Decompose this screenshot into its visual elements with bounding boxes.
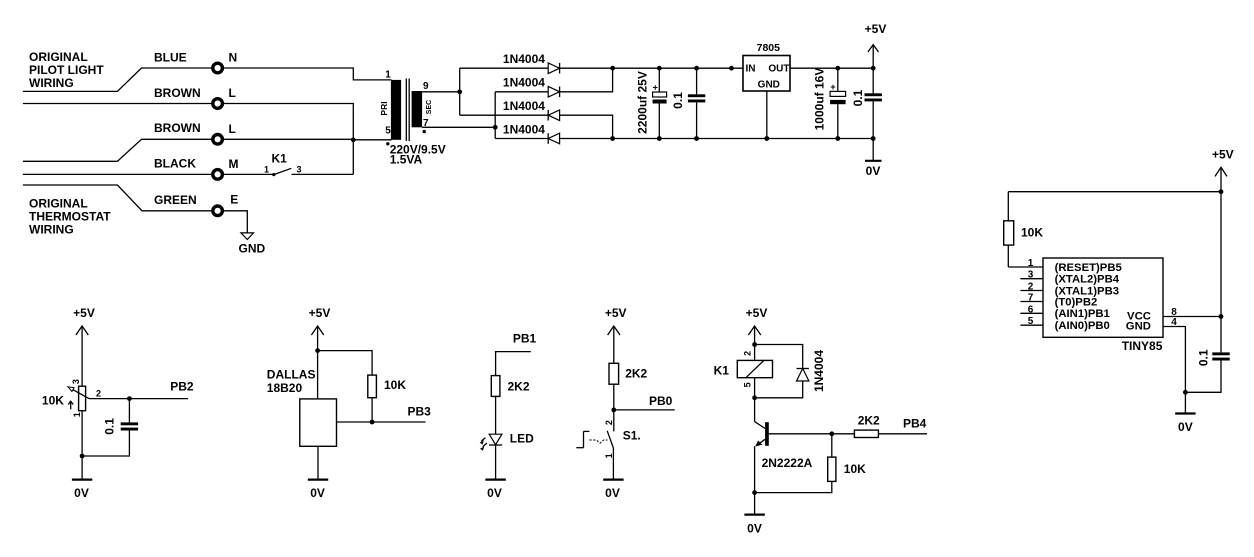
- wire wiper to PB2: [89, 398, 188, 400]
- svg-text:2: 2: [743, 351, 753, 356]
- svg-text:1.5VA: 1.5VA: [390, 153, 423, 167]
- ground 0V pot: [72, 480, 92, 500]
- svg-text:1: 1: [1028, 258, 1034, 269]
- node pin7: [493, 125, 498, 130]
- capacitor C6 0.1: [82, 399, 138, 456]
- svg-text:3: 3: [1028, 270, 1034, 281]
- voltage regulator 7805: [743, 42, 790, 91]
- svg-text:6: 6: [1028, 304, 1034, 315]
- wire pin7 vertical: [494, 92, 496, 139]
- wire sensor gnd: [317, 446, 319, 479]
- node rail joins: [610, 66, 615, 71]
- svg-text:(AIN1)PB1: (AIN1)PB1: [1055, 308, 1110, 320]
- wire LED to ground: [495, 445, 497, 480]
- svg-text:BLACK: BLACK: [154, 157, 196, 171]
- svg-text:1: 1: [72, 412, 82, 417]
- svg-text:THERMOSTAT: THERMOSTAT: [29, 210, 111, 224]
- LED D5: [480, 432, 534, 451]
- svg-text:WIRING: WIRING: [29, 76, 74, 90]
- resistor R7 10K pulldown: [755, 434, 867, 493]
- relay coil K1: [714, 351, 773, 388]
- wire secondary pin 9: [422, 91, 460, 93]
- svg-text:0.1: 0.1: [102, 418, 116, 435]
- svg-text:1N4004: 1N4004: [812, 350, 826, 392]
- svg-text:0V: 0V: [605, 486, 620, 500]
- svg-text:10K: 10K: [1021, 226, 1043, 240]
- svg-text:IN: IN: [746, 64, 756, 75]
- svg-text:WIRING: WIRING: [29, 223, 74, 237]
- svg-text:1: 1: [604, 453, 614, 458]
- svg-text:+: +: [653, 83, 658, 93]
- pin 7 stub: [1020, 301, 1043, 303]
- svg-text:E: E: [230, 193, 238, 207]
- node before regulator: [729, 66, 734, 71]
- svg-text:0V: 0V: [866, 164, 881, 178]
- svg-text:3: 3: [71, 379, 81, 384]
- svg-text:1N4004: 1N4004: [503, 99, 545, 113]
- ground 0V s1: [603, 480, 623, 500]
- IC U1 TINY85: [1043, 258, 1163, 353]
- svg-text:18B20: 18B20: [267, 381, 303, 395]
- svg-text:+5V: +5V: [865, 22, 887, 36]
- terminal E: [213, 206, 223, 216]
- svg-text:10K: 10K: [42, 394, 64, 408]
- svg-text:GND: GND: [239, 242, 266, 256]
- svg-text:0V: 0V: [310, 486, 325, 500]
- pin 2 stub: [1020, 290, 1043, 292]
- svg-text:SEC: SEC: [426, 100, 433, 114]
- terminal L1: [213, 99, 223, 109]
- svg-text:(RESET)PB5: (RESET)PB5: [1055, 262, 1122, 274]
- wire PB1: [496, 352, 531, 376]
- svg-text:BROWN: BROWN: [154, 121, 201, 135]
- label ORIGINAL PILOT LIGHT WIRING: [29, 50, 104, 90]
- pin 8 VCC stub: [1163, 316, 1221, 318]
- svg-text:+5V: +5V: [1212, 148, 1234, 162]
- svg-text:5: 5: [1028, 316, 1034, 327]
- diode D6 1N4004 flyback: [755, 350, 826, 398]
- capacitor C5 0.1 decoupling: [1185, 317, 1229, 393]
- svg-text:PB2: PB2: [170, 380, 194, 394]
- wire to pullup: [318, 351, 373, 376]
- svg-text:3: 3: [297, 164, 302, 174]
- ground 0V dallas: [308, 480, 328, 500]
- terminal L2: [213, 135, 223, 145]
- svg-text:BROWN: BROWN: [154, 86, 201, 100]
- wire +5V to flyback diode: [755, 345, 803, 369]
- supply +5V arrow main: [865, 22, 887, 68]
- supply +5V arrow relay: [746, 306, 768, 360]
- wire relay coil bottom: [754, 378, 756, 422]
- svg-text:PB1: PB1: [513, 332, 537, 346]
- resistor R4 2K2: [491, 376, 530, 435]
- svg-text:1N4004: 1N4004: [503, 122, 545, 136]
- wire BLACK row (M) to K1 contact: [23, 173, 273, 175]
- wire diode row 2: [495, 68, 612, 92]
- node pin9: [457, 89, 462, 94]
- svg-text:GND: GND: [1126, 321, 1151, 333]
- terminal N: [213, 63, 223, 73]
- svg-text:(XTAL2)PB4: (XTAL2)PB4: [1055, 274, 1120, 286]
- svg-text:S1.: S1.: [623, 429, 641, 443]
- supply +5V arrow dallas: [309, 306, 331, 399]
- svg-text:10K: 10K: [384, 378, 406, 392]
- transformer core: [405, 79, 407, 142]
- svg-text:BLUE: BLUE: [154, 51, 187, 65]
- svg-text:+5V: +5V: [746, 306, 768, 320]
- svg-text:9: 9: [423, 81, 429, 92]
- svg-text:TINY85: TINY85: [1122, 339, 1163, 353]
- svg-text:+: +: [830, 82, 835, 92]
- svg-text:ORIGINAL: ORIGINAL: [29, 197, 88, 211]
- wire reset pin: [1008, 266, 1043, 268]
- svg-text:PB3: PB3: [408, 404, 432, 418]
- diode D4 1N4004: [503, 122, 560, 144]
- wire diode row 4 / 0V rail: [495, 138, 873, 140]
- svg-text:+5V: +5V: [605, 306, 627, 320]
- capacitor C3 1000uf 16V: [812, 66, 845, 141]
- wire secondary pin 7: [422, 126, 495, 128]
- wire BROWN row 2 (L) to transformer pin 5: [23, 139, 392, 161]
- svg-text:0V: 0V: [747, 522, 762, 536]
- switch S1: [576, 420, 640, 458]
- svg-text:1N4004: 1N4004: [503, 76, 545, 90]
- diode D1 1N4004: [503, 52, 560, 74]
- resistor R1 10K pullup: [1004, 192, 1044, 267]
- svg-text:L: L: [229, 122, 236, 136]
- supply +5V arrow s1: [605, 306, 627, 363]
- svg-text:OUT: OUT: [768, 64, 789, 75]
- transformer secondary winding: [412, 81, 434, 133]
- svg-text:2: 2: [1028, 282, 1034, 293]
- svg-text:5: 5: [743, 382, 753, 387]
- relay contact K1: [264, 152, 302, 177]
- diode D2 1N4004: [503, 76, 560, 98]
- capacitor C4 0.1: [851, 66, 882, 141]
- pin 3 stub: [1020, 278, 1043, 280]
- node pin5 junction: [351, 137, 356, 142]
- svg-text:LED: LED: [510, 432, 534, 446]
- svg-text:1N4004: 1N4004: [503, 52, 545, 66]
- sensor U2 DALLAS 18B20: [267, 367, 337, 446]
- transformer primary winding: [379, 70, 401, 146]
- svg-text:0.1: 0.1: [1196, 349, 1210, 366]
- svg-text:1: 1: [385, 70, 391, 81]
- svg-text:DALLAS: DALLAS: [267, 367, 316, 381]
- svg-text:0V: 0V: [1178, 420, 1193, 434]
- wire diode row 3: [460, 115, 613, 138]
- node emitter junction: [752, 490, 757, 495]
- resistor R6 2K2 base: [854, 413, 927, 437]
- ground 0V tiny85: [1175, 392, 1195, 434]
- wire +5V rail to resistor: [1008, 191, 1221, 193]
- svg-text:K1: K1: [272, 152, 288, 166]
- wire diode row 1: [460, 67, 743, 69]
- svg-text:L: L: [229, 86, 236, 100]
- wire 7805 GND pin: [766, 91, 768, 139]
- svg-text:PILOT LIGHT: PILOT LIGHT: [29, 63, 104, 77]
- svg-text:2200uf 25V: 2200uf 25V: [635, 71, 649, 134]
- svg-text:1: 1: [264, 164, 269, 174]
- svg-text:ORIGINAL: ORIGINAL: [29, 50, 88, 64]
- wire pot bottom to ground: [81, 411, 83, 480]
- wire pin9 vertical: [459, 68, 461, 115]
- transistor Q1 2N2222A: [755, 422, 813, 493]
- pin 4 GND stub: [1163, 327, 1185, 393]
- supply +5V arrow tiny85: [1212, 148, 1234, 317]
- svg-text:7: 7: [1028, 293, 1034, 304]
- wire K1 contact to transformer net: [292, 173, 354, 175]
- ground 0V led: [485, 480, 505, 500]
- wire PB0: [614, 409, 675, 411]
- svg-text:2K2: 2K2: [858, 413, 880, 427]
- wire 7805 OUT: [790, 67, 873, 69]
- svg-text:N: N: [229, 51, 238, 65]
- svg-text:2N2222A: 2N2222A: [762, 456, 813, 470]
- ground GND arrow: [241, 233, 254, 240]
- svg-text:0.1: 0.1: [851, 89, 865, 106]
- diode D3 1N4004: [503, 99, 560, 121]
- svg-text:+5V: +5V: [73, 306, 95, 320]
- resistor R3 10K: [368, 375, 407, 422]
- svg-text:2K2: 2K2: [625, 366, 647, 380]
- wire DQ to PB3: [337, 421, 426, 423]
- svg-text:0V: 0V: [487, 486, 502, 500]
- label ORIGINAL THERMOSTAT WIRING: [29, 197, 111, 237]
- svg-text:0V: 0V: [74, 486, 89, 500]
- node gnd join: [1183, 390, 1188, 395]
- svg-text:7805: 7805: [757, 42, 781, 54]
- terminal M: [213, 170, 223, 180]
- svg-text:1000uf 16V: 1000uf 16V: [812, 68, 826, 131]
- svg-text:+5V: +5V: [309, 306, 331, 320]
- svg-text:5: 5: [385, 125, 391, 136]
- svg-text:GND: GND: [758, 80, 780, 91]
- capacitor C1 2200uf 25V: [635, 66, 666, 141]
- pin 5 stub: [1020, 324, 1043, 326]
- capacitor C2 0.1: [671, 66, 706, 141]
- wire E to GND: [223, 211, 248, 233]
- svg-text:PRI: PRI: [379, 101, 389, 115]
- wire BLUE row to terminal N and transformer pin 1: [23, 68, 392, 91]
- svg-text:2: 2: [604, 420, 614, 425]
- svg-text:(T0)PB2: (T0)PB2: [1055, 296, 1098, 308]
- ground 0V relay: [744, 493, 764, 536]
- svg-text:(AIN0)PB0: (AIN0)PB0: [1055, 320, 1110, 332]
- resistor R5 2K2: [609, 363, 648, 431]
- svg-text:10K: 10K: [844, 462, 866, 476]
- wire base to junction: [769, 433, 855, 435]
- supply +5V arrow pot: [73, 306, 95, 386]
- potentiometer R2 10K: [42, 379, 101, 417]
- svg-text:GREEN: GREEN: [154, 193, 197, 207]
- svg-text:PB4: PB4: [903, 416, 927, 430]
- svg-text:4: 4: [1171, 317, 1177, 328]
- wire BROWN row 1 (L) down to junction: [23, 104, 353, 175]
- wire GREEN row (E): [23, 185, 224, 211]
- svg-text:2K2: 2K2: [508, 379, 530, 393]
- wire S1 to ground: [612, 448, 614, 480]
- svg-text:0.1: 0.1: [671, 92, 685, 109]
- pin 6 stub: [1020, 312, 1043, 314]
- svg-text:PB0: PB0: [649, 394, 673, 408]
- svg-text:M: M: [229, 157, 239, 171]
- svg-text:2: 2: [96, 388, 101, 398]
- ground 0V main: [865, 139, 882, 179]
- svg-text:K1: K1: [714, 364, 730, 378]
